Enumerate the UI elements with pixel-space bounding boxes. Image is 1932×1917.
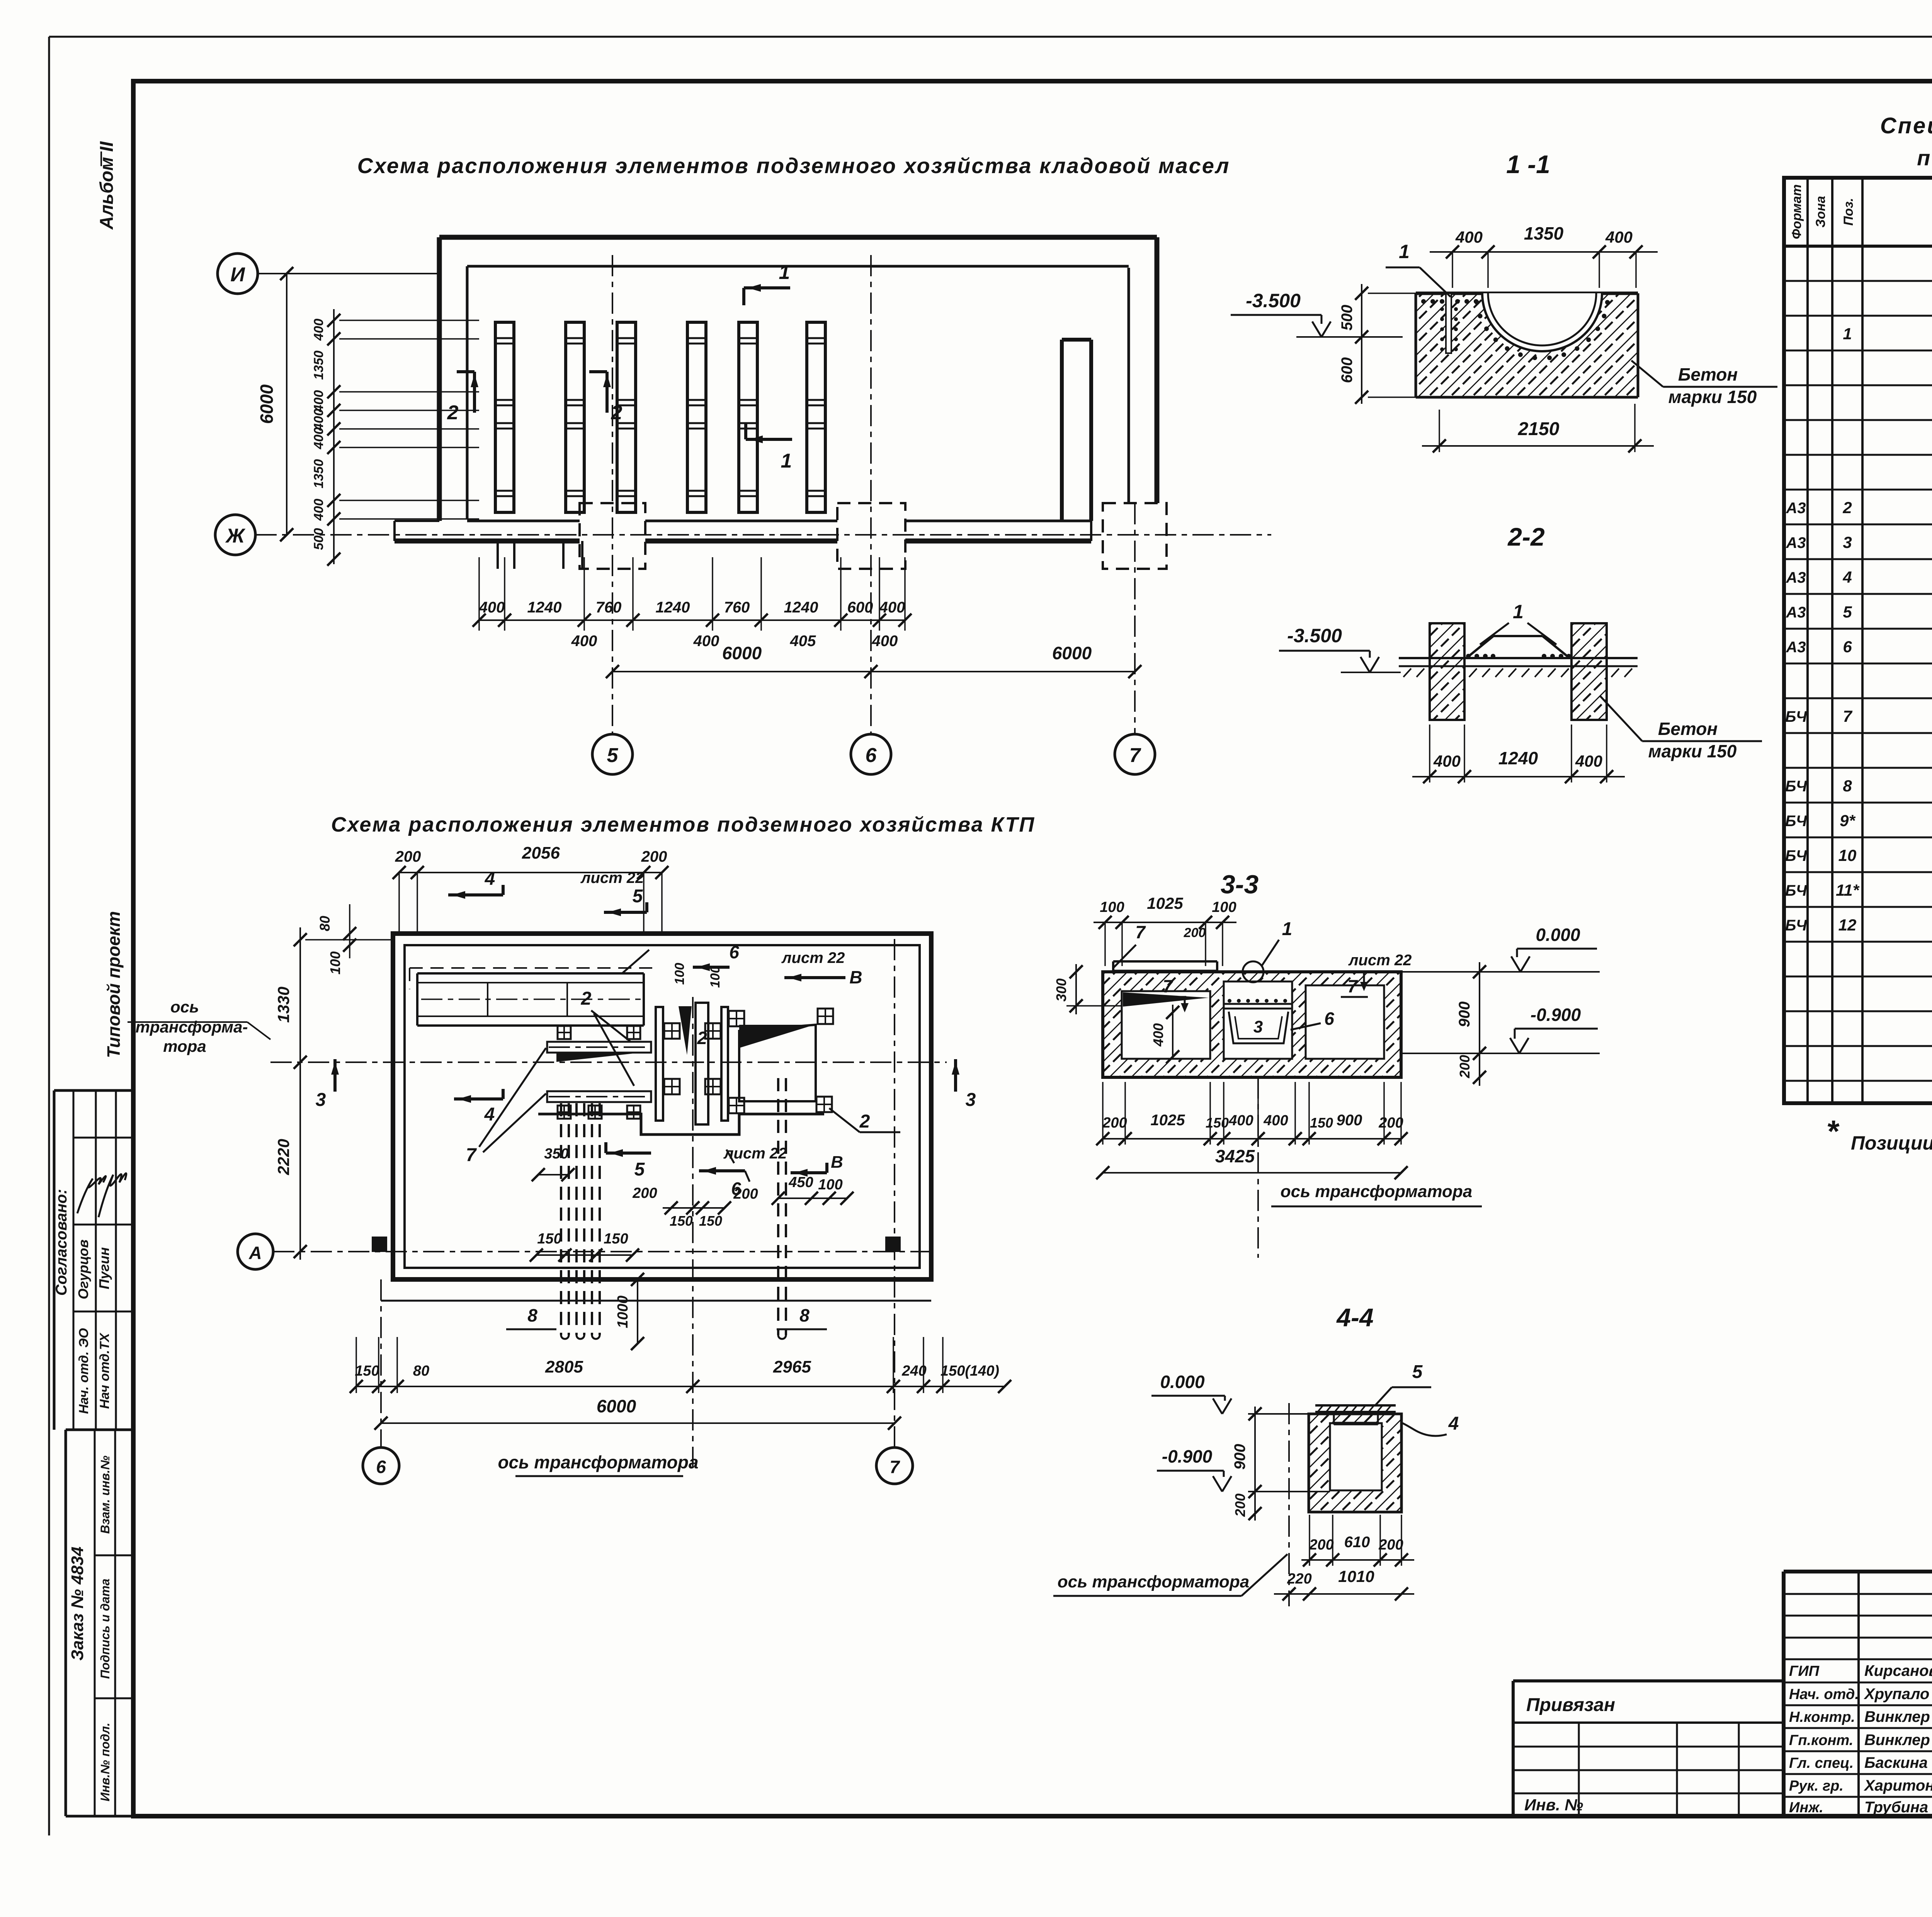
specification table grid <box>1784 178 1932 1103</box>
svg-text:220: 220 <box>1287 1571 1311 1587</box>
section 4-4 label 5 leader <box>1375 1362 1431 1405</box>
svg-text:Заказ № 4834: Заказ № 4834 <box>68 1546 87 1660</box>
svg-text:Типовой проект: Типовой проект <box>104 911 124 1058</box>
svg-text:200: 200 <box>395 848 421 865</box>
svg-text:6: 6 <box>1324 1009 1334 1029</box>
plan 1: axis line Ж <box>255 528 1271 541</box>
plan 2: dashed clearance outline <box>410 968 657 989</box>
section 4-4 level -0.900 <box>1157 1446 1330 1492</box>
section 4-4 label <box>1336 1303 1373 1332</box>
svg-text:1350: 1350 <box>311 350 326 380</box>
svg-text:400: 400 <box>693 633 719 650</box>
svg-text:12: 12 <box>1838 916 1857 934</box>
svg-text:1240: 1240 <box>1498 748 1538 768</box>
svg-text:Инв.№ подл.: Инв.№ подл. <box>98 1723 112 1801</box>
svg-text:А: А <box>248 1243 262 1263</box>
svg-text:400: 400 <box>311 427 326 450</box>
svg-text:400: 400 <box>571 633 597 650</box>
specification table rows <box>1785 253 1932 1039</box>
svg-text:Винклер: Винклер <box>1864 1708 1930 1725</box>
svg-text:4: 4 <box>484 1104 495 1125</box>
channel strip 3 <box>617 322 636 512</box>
svg-text:ось трансформатора: ось трансформатора <box>1281 1182 1473 1201</box>
svg-text:2: 2 <box>1842 498 1852 517</box>
svg-text:7: 7 <box>1135 922 1146 942</box>
section 3-3 top dims 100/1025/100 <box>1094 894 1236 966</box>
svg-text:6: 6 <box>729 942 739 962</box>
svg-text:7: 7 <box>1347 976 1358 996</box>
svg-text:100: 100 <box>1100 899 1124 915</box>
svg-text:Инв. №: Инв. № <box>1524 1796 1583 1814</box>
svg-text:150: 150 <box>670 1213 693 1229</box>
svg-text:А3: А3 <box>1786 500 1806 517</box>
section 1-1 leader label 1 <box>1386 241 1451 297</box>
svg-text:400: 400 <box>1433 752 1461 770</box>
svg-text:400: 400 <box>872 633 898 650</box>
plan 2: section mark 4 top <box>448 869 503 899</box>
section 1-1 label <box>1506 150 1550 179</box>
section 1-1 concrete block with half-pipe trough <box>1416 293 1638 397</box>
svg-text:1: 1 <box>1282 919 1293 939</box>
svg-text:1350: 1350 <box>1524 223 1564 243</box>
section 3-3 level -0.900 right <box>1403 1005 1600 1053</box>
svg-text:Позиции· 9, 11 - смотреть: Позиции· 9, 11 - смотреть ведомость дета… <box>1851 1132 1932 1154</box>
svg-text:100: 100 <box>1212 899 1236 915</box>
svg-text:марки 150: марки 150 <box>1668 387 1757 407</box>
left margin: Альбом II <box>97 141 117 230</box>
svg-text:7: 7 <box>1163 976 1173 996</box>
plan 2: label 2 right with leader <box>829 1108 900 1132</box>
svg-text:Нач. отд.: Нач. отд. <box>1789 1686 1859 1703</box>
svg-text:5: 5 <box>633 886 643 907</box>
svg-text:подземного хозяйства кладово: подземного хозяйства кладовой масел и КТ… <box>1917 146 1932 170</box>
svg-text:5: 5 <box>1412 1362 1423 1382</box>
svg-text:1: 1 <box>1513 601 1524 623</box>
section 4-4 grate lid element 5 <box>1315 1405 1396 1424</box>
plan 1: left dimension chain 400/1350/400... <box>311 309 479 566</box>
svg-text:2805: 2805 <box>545 1357 583 1376</box>
svg-text:6000: 6000 <box>257 384 277 424</box>
section 3-3 black gate wedge <box>1123 992 1209 1007</box>
svg-text:3-3: 3-3 <box>1221 870 1259 899</box>
section 3-3 cable channel element 3 <box>1224 999 1292 1043</box>
left margin: Типовой проект <box>104 911 124 1058</box>
plan 2: black square markers on axis А <box>372 1237 901 1252</box>
svg-text:600: 600 <box>847 599 873 616</box>
svg-text:7: 7 <box>466 1145 477 1165</box>
svg-text:1240: 1240 <box>784 599 818 616</box>
section 1-1 note Бетон марки 150 <box>1631 361 1777 407</box>
svg-text:В: В <box>849 967 862 987</box>
svg-text:БЧ: БЧ <box>1785 847 1807 864</box>
svg-text:марки 150: марки 150 <box>1648 741 1737 761</box>
section 1-1 left dims 500/600 <box>1338 284 1416 404</box>
plan 1: section mark 2 (left) <box>447 372 478 424</box>
plan 2: cable trench top-left <box>417 950 649 1026</box>
svg-text:2965: 2965 <box>773 1357 811 1376</box>
section 3-3 labels 7 <box>1113 922 1412 1012</box>
svg-text:ось трансформатора: ось трансформатора <box>498 1452 698 1472</box>
left margin: Заказ / Взам.инв / Подпись block <box>66 1430 133 1816</box>
svg-text:4: 4 <box>485 869 495 889</box>
plan 1: bottom dimension chain row 1 <box>473 557 912 631</box>
plan 2: left dimension chain 1330/2220 <box>274 927 393 1260</box>
section 4-4 U-shaped duct <box>1309 1414 1401 1512</box>
plan 1: pipe stubs below bottom wall <box>498 541 582 569</box>
svg-text:ГИП: ГИП <box>1789 1663 1820 1679</box>
svg-text:400: 400 <box>1575 752 1602 770</box>
svg-text:Рук. гр.: Рук. гр. <box>1789 1778 1844 1794</box>
svg-text:610: 610 <box>1344 1534 1370 1551</box>
plan 1: section mark 2 (right) <box>589 372 622 424</box>
plan 2: section mark 5 lower <box>606 1142 651 1180</box>
svg-text:1330: 1330 <box>274 987 293 1022</box>
svg-text:0.000: 0.000 <box>1160 1372 1205 1392</box>
svg-text:3425: 3425 <box>1215 1146 1255 1166</box>
svg-text:А3: А3 <box>1786 639 1806 656</box>
section 3-3 ось трансформатора <box>1258 1077 1482 1258</box>
plan 2: pipe bundle dims 150/150 bottom <box>530 1231 639 1262</box>
svg-text:240: 240 <box>901 1363 926 1379</box>
svg-text:2: 2 <box>447 401 459 424</box>
plan 2: vertical axis 7 <box>876 939 913 1484</box>
section 3-3 lid channel element 7 <box>1113 961 1217 971</box>
channel strip 6 <box>807 322 825 512</box>
plan 2: vertical dim 1000 at pipes <box>615 1273 644 1350</box>
left margin: Согласовано block <box>53 1090 133 1430</box>
svg-text:900: 900 <box>1337 1112 1362 1129</box>
svg-text:2: 2 <box>581 988 592 1009</box>
svg-text:5: 5 <box>634 1159 645 1180</box>
plan 1: axis circle И <box>218 253 258 294</box>
section 3-3 concrete tank <box>1103 972 1401 1077</box>
svg-text:ось: ось <box>170 998 199 1016</box>
svg-text:400: 400 <box>1228 1112 1253 1129</box>
svg-text:150: 150 <box>699 1213 722 1229</box>
plan 1: foundation pit dashed box at axis 5 <box>580 503 645 569</box>
plan 2: center plates <box>656 1003 728 1124</box>
plan 1: bottom dimension row 2 labels <box>571 633 898 650</box>
section 1-1 bottom dimension 2150 <box>1422 404 1654 452</box>
plan 1: axis line И <box>258 267 439 280</box>
svg-text:*: * <box>1826 1114 1840 1148</box>
specification table title <box>1880 113 1932 170</box>
svg-text:4: 4 <box>1448 1414 1459 1434</box>
plan 1: vertical axis 5 line <box>612 255 613 734</box>
section 3-3 left dim 300 <box>1053 964 1122 1014</box>
channel strip 5 <box>739 322 757 512</box>
svg-text:2-2: 2-2 <box>1507 522 1545 551</box>
plan 2: horizontal axis ось трансформатора <box>128 998 947 1062</box>
svg-text:200: 200 <box>733 1186 758 1202</box>
svg-text:760: 760 <box>724 599 750 616</box>
svg-text:900: 900 <box>1231 1444 1248 1470</box>
svg-text:лист 22: лист 22 <box>781 949 845 966</box>
svg-text:11*: 11* <box>1836 881 1860 899</box>
svg-text:200: 200 <box>1232 1493 1248 1517</box>
svg-text:Поз.: Поз. <box>1841 198 1856 226</box>
title block: main frame <box>1784 1572 1932 1816</box>
svg-text:А3: А3 <box>1786 534 1806 551</box>
svg-text:0.000: 0.000 <box>1536 925 1580 945</box>
plan 2: pipe bundle (dashed) left <box>561 1103 600 1339</box>
plan 2: building walls <box>381 934 931 1301</box>
section 3-3 right dims 900/200 <box>1456 962 1486 1086</box>
svg-text:6: 6 <box>1843 638 1852 656</box>
section 3-3 bottom dim 3425 <box>1096 1146 1408 1179</box>
svg-text:200: 200 <box>1102 1115 1127 1131</box>
title: Схема расположения элементов подземного хозяйства кладовой масел <box>357 153 1230 178</box>
section 2-2 rebar dots <box>1466 654 1571 658</box>
svg-text:Баскина: Баскина <box>1864 1754 1928 1771</box>
svg-text:7: 7 <box>1129 744 1141 767</box>
plan 2: section mark 3 right <box>952 1059 976 1110</box>
section 4-4 level 0.000 <box>1151 1372 1309 1414</box>
svg-text:лист 22: лист 22 <box>580 869 644 886</box>
svg-text:1: 1 <box>779 261 790 284</box>
svg-text:В: В <box>831 1153 843 1172</box>
svg-text:Трубина: Трубина <box>1864 1799 1928 1816</box>
svg-text:Пугин: Пугин <box>96 1247 112 1289</box>
svg-text:400: 400 <box>311 319 326 341</box>
channel strip 4 <box>687 322 706 512</box>
plan 1: foundation pit dashed box at right wall <box>1103 503 1167 569</box>
plan 2: bolt squares center <box>664 1009 833 1113</box>
svg-text:3: 3 <box>966 1090 976 1110</box>
svg-text:2: 2 <box>859 1111 870 1132</box>
svg-text:400: 400 <box>1455 228 1483 246</box>
svg-text:Инж.: Инж. <box>1789 1800 1823 1816</box>
svg-text:Нач. отд. ЭО: Нач. отд. ЭО <box>77 1328 91 1414</box>
svg-text:А3: А3 <box>1786 604 1806 621</box>
svg-text:Формат: Формат <box>1789 184 1804 239</box>
section 2-2 bottom dims 400/1240/400 <box>1412 725 1625 783</box>
svg-text:9*: 9* <box>1840 811 1855 830</box>
svg-text:Кирсанов: Кирсанов <box>1864 1662 1932 1679</box>
svg-text:Харитонов: Харитонов <box>1864 1777 1932 1794</box>
title block: привязан table <box>1513 1681 1784 1816</box>
svg-text:-0.900: -0.900 <box>1531 1005 1581 1025</box>
svg-text:1000: 1000 <box>615 1296 631 1328</box>
svg-text:80: 80 <box>317 916 333 931</box>
plan 1: axis circle Ж <box>215 515 255 555</box>
svg-text:Ж: Ж <box>225 525 246 547</box>
svg-text:5: 5 <box>1843 603 1852 621</box>
svg-text:Винклер: Винклер <box>1864 1732 1930 1749</box>
plan 1: foundation pit dashed box at axis 6 <box>837 503 905 569</box>
section 1-1 level mark -3.500 <box>1231 290 1403 337</box>
svg-text:трансформа-: трансформа- <box>136 1018 248 1036</box>
section 2-2 level mark -3.500 <box>1279 625 1401 672</box>
svg-text:Н.контр.: Н.контр. <box>1789 1709 1855 1725</box>
svg-text:Схема расположения элементов: Схема расположения элементов подземного … <box>357 153 1230 178</box>
plan 1: section mark 1 (middle) <box>746 423 792 472</box>
plan 1: axis circle 5 <box>592 734 633 774</box>
svg-text:Бетон: Бетон <box>1678 364 1738 384</box>
svg-text:2: 2 <box>611 401 622 424</box>
svg-text:350: 350 <box>544 1146 568 1162</box>
svg-text:1: 1 <box>1399 241 1410 262</box>
plan 1: building outer walls <box>439 237 1157 521</box>
plan 2: anchor bolts on beams <box>558 1026 640 1119</box>
svg-text:Гл. спец.: Гл. спец. <box>1789 1755 1854 1771</box>
svg-text:БЧ: БЧ <box>1785 813 1807 830</box>
plan 2: mark В lower right <box>791 1153 843 1177</box>
svg-text:Спецификация к схемам распо: Спецификация к схемам расположения элеме… <box>1880 113 1932 138</box>
plan 2: upper rail beam <box>547 1042 651 1062</box>
svg-text:Подпись и дата: Подпись и дата <box>98 1579 112 1679</box>
svg-text:2220: 2220 <box>274 1139 293 1175</box>
section 3-3 level 0.000 right <box>1401 925 1600 972</box>
plan 2: labels 8 with leaders <box>506 1305 827 1329</box>
svg-text:10: 10 <box>1838 846 1857 864</box>
svg-text:100: 100 <box>708 966 723 988</box>
plan 1: bottom dimension 6000 (axes 6-7) <box>871 643 1141 678</box>
svg-text:400: 400 <box>1150 1023 1166 1047</box>
svg-text:600: 600 <box>1338 357 1355 383</box>
svg-text:200: 200 <box>1378 1537 1403 1553</box>
svg-text:100: 100 <box>327 951 343 975</box>
svg-text:БЧ: БЧ <box>1785 917 1807 934</box>
svg-text:А3: А3 <box>1786 569 1806 586</box>
svg-text:Взам. инв.№: Взам. инв.№ <box>98 1455 112 1534</box>
svg-text:7: 7 <box>889 1457 900 1477</box>
svg-text:200: 200 <box>1184 925 1206 940</box>
svg-text:1: 1 <box>1843 325 1852 343</box>
svg-text:100: 100 <box>818 1177 842 1193</box>
svg-text:1240: 1240 <box>656 599 690 616</box>
svg-text:6000: 6000 <box>722 643 762 663</box>
svg-text:80: 80 <box>413 1363 429 1379</box>
section 2-2 trapezoid cover element 1 <box>1466 601 1570 658</box>
svg-text:-3.500: -3.500 <box>1246 290 1301 311</box>
svg-text:4-4: 4-4 <box>1336 1303 1373 1332</box>
channel strip 2 <box>566 322 584 512</box>
svg-text:150: 150 <box>604 1231 628 1247</box>
svg-text:500: 500 <box>311 528 326 550</box>
section 1-1 top dimension 400/1350/400 <box>1430 223 1658 288</box>
svg-text:6: 6 <box>866 744 877 767</box>
section 3-3 inner dim 400 <box>1150 1005 1179 1063</box>
spec footnote <box>1826 1114 1932 1154</box>
plan 2: mark лист 22 / 6 lower <box>699 1145 787 1199</box>
svg-text:1025: 1025 <box>1151 1112 1185 1129</box>
svg-text:Привязан: Привязан <box>1526 1695 1615 1715</box>
svg-text:6: 6 <box>376 1457 386 1477</box>
svg-text:1350: 1350 <box>311 459 326 488</box>
plan 2: section mark 6 middle <box>672 942 739 988</box>
plan 1: axis circle 6 <box>851 734 891 774</box>
section 2-2 label <box>1507 522 1545 551</box>
svg-text:1240: 1240 <box>527 599 562 616</box>
svg-text:2150: 2150 <box>1518 419 1560 439</box>
plan 2: section mark 4 lower <box>454 1089 503 1125</box>
plan 2: mark лист 22 В top right <box>781 949 862 987</box>
plan 2: bottom dimension chain row 1 <box>350 1337 1011 1393</box>
svg-text:1025: 1025 <box>1147 894 1183 912</box>
svg-text:1 -1: 1 -1 <box>1506 150 1550 179</box>
svg-text:8: 8 <box>527 1305 537 1325</box>
svg-text:Альбом II: Альбом II <box>97 141 117 230</box>
svg-text:400: 400 <box>1605 228 1633 246</box>
section 3-3 mesh roll circle element 1 <box>1243 919 1292 982</box>
plan 2: foundation pit step outline <box>538 1114 824 1135</box>
specification table header <box>1789 184 1932 239</box>
section 3-3 bottom dim chain <box>1096 1082 1408 1145</box>
svg-text:6000: 6000 <box>597 1396 636 1416</box>
svg-text:2056: 2056 <box>522 844 560 862</box>
plan 2: vertical axis 6 <box>363 1279 399 1484</box>
svg-text:200: 200 <box>1309 1537 1333 1553</box>
svg-text:150: 150 <box>355 1363 379 1379</box>
plan 1: vertical axis 7 line <box>1134 503 1136 734</box>
svg-text:405: 405 <box>790 633 816 650</box>
plan 2: pipe (dashed) right <box>778 1078 786 1339</box>
svg-text:1: 1 <box>781 450 792 472</box>
svg-text:200: 200 <box>641 848 667 865</box>
svg-text:4: 4 <box>1842 568 1852 586</box>
svg-text:И: И <box>230 264 245 286</box>
section 2-2 piers and slab <box>1399 623 1638 720</box>
svg-text:8: 8 <box>799 1305 810 1325</box>
svg-text:тора: тора <box>163 1037 206 1055</box>
svg-text:3: 3 <box>1843 533 1852 551</box>
plan 2: section mark 5 top <box>604 886 647 916</box>
svg-text:БЧ: БЧ <box>1785 882 1807 899</box>
section 4-4 axis dash line <box>1288 1403 1290 1606</box>
plan 1: vertical axis 6 line <box>870 255 872 734</box>
plan 1: axis circle 7 <box>1115 734 1155 774</box>
plan 2: transformer outline with black wedge <box>739 1025 816 1101</box>
svg-text:Бетон: Бетон <box>1658 719 1718 739</box>
plan 2: small dims 80/100 top-left <box>317 904 356 975</box>
section 4-4 bottom dims 220/1010 <box>1274 1567 1414 1601</box>
svg-text:200: 200 <box>1457 1055 1473 1078</box>
svg-text:150: 150 <box>1206 1115 1229 1131</box>
svg-text:200: 200 <box>632 1185 657 1201</box>
svg-text:3: 3 <box>1253 1017 1263 1036</box>
plan 2: vertical axis трансформатора <box>498 997 698 1476</box>
section 4-4 ось трансформатора <box>1053 1554 1287 1596</box>
svg-text:400: 400 <box>311 499 326 521</box>
svg-text:150: 150 <box>537 1231 561 1247</box>
svg-text:3: 3 <box>316 1090 326 1110</box>
svg-text:150: 150 <box>1310 1115 1333 1131</box>
svg-text:6000: 6000 <box>1052 643 1092 663</box>
svg-text:-3.500: -3.500 <box>1287 625 1342 646</box>
plan 2: label 2 top with leaders <box>581 988 634 1086</box>
section 4-4 left dims 900/200 <box>1231 1407 1262 1521</box>
svg-text:7: 7 <box>1843 707 1852 725</box>
section 4-4 bottom dims 200/610/200 <box>1301 1515 1414 1567</box>
svg-text:Зона: Зона <box>1813 196 1828 228</box>
svg-text:Огурцов: Огурцов <box>75 1240 91 1300</box>
svg-text:450: 450 <box>788 1174 813 1191</box>
plan 1: section mark 1 (top) <box>744 261 790 305</box>
svg-text:ось трансформатора: ось трансформатора <box>1058 1572 1250 1591</box>
plan 1: interior wall strip right <box>1062 340 1091 521</box>
svg-text:400: 400 <box>479 599 505 616</box>
plan 2: section mark 3 left <box>316 1059 339 1110</box>
section 2-2 note Бетон марки 150 <box>1600 696 1762 761</box>
svg-text:500: 500 <box>1338 305 1355 331</box>
section 3-3 label 6 <box>1291 1009 1334 1030</box>
svg-text:5: 5 <box>607 744 619 767</box>
plan 1: bottom wall along Ж with openings <box>395 521 1091 541</box>
channel strip 1 <box>495 322 514 512</box>
svg-text:100: 100 <box>672 963 687 985</box>
section 4-4 label 4 leader <box>1401 1414 1459 1436</box>
